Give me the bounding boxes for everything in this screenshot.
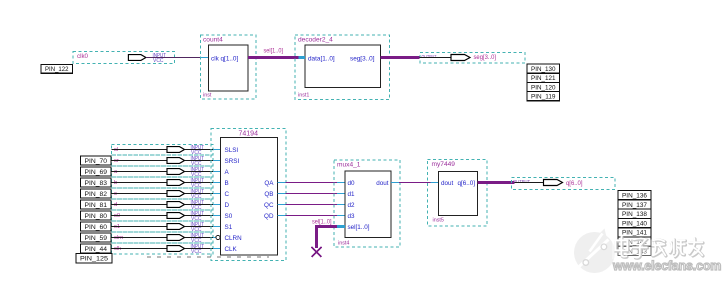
bus seg[3..0] decoder2_4 to output [381, 56, 420, 59]
selection box input s1 [112, 221, 214, 232]
wire s1 pin to buffer [112, 226, 168, 228]
svg-text:PIN_80: PIN_80 [85, 213, 108, 220]
net label sel[1..0] [264, 48, 284, 55]
svg-text:OUTPUT: OUTPUT [422, 54, 437, 60]
net label sr [114, 158, 119, 164]
net label a [114, 169, 118, 175]
OUTPUT label seg [422, 54, 437, 60]
svg-text:mux4_1: mux4_1 [337, 162, 361, 169]
bus sel[1..0] into mux4_1 [315, 225, 345, 248]
svg-text:clrn: clrn [114, 235, 123, 241]
wire dout mux4_1 to my7449 [391, 182, 439, 184]
INPUT VCC label c [191, 189, 205, 200]
input buffer d [167, 202, 185, 208]
svg-text:dout: dout [376, 180, 389, 187]
svg-text:clk0: clk0 [77, 53, 89, 60]
selection box input sr [112, 155, 214, 166]
svg-text:inst5: inst5 [433, 218, 444, 224]
svg-text:data[1..0]: data[1..0] [308, 55, 335, 62]
wire sr pin to buffer [112, 160, 168, 162]
wire b buffer to 74194 [185, 182, 221, 184]
bus q[6..0] my7449 to output [478, 181, 515, 184]
output pin PIN_140 [618, 218, 651, 227]
svg-text:q[6..0]: q[6..0] [457, 180, 475, 187]
output pin PIN_119 [527, 92, 560, 101]
svg-text:d2: d2 [348, 202, 356, 209]
svg-text:PIN_70: PIN_70 [85, 158, 108, 165]
svg-text:seg[3..0]: seg[3..0] [474, 54, 497, 61]
svg-text:decoder2_4: decoder2_4 [298, 37, 333, 44]
watermark elecfans logo [574, 229, 615, 274]
svg-text:QA: QA [264, 180, 274, 187]
svg-text:CLK: CLK [225, 246, 238, 253]
svg-text:PIN_121: PIN_121 [531, 75, 556, 82]
selection box input sl [112, 145, 214, 156]
svg-text:d0: d0 [348, 180, 356, 187]
wire s0 buffer to 74194 [185, 215, 221, 217]
input buffer s0 [167, 213, 185, 219]
wire QA to d0 [278, 182, 346, 184]
wire c pin to buffer [112, 193, 168, 195]
selection box q output [512, 178, 616, 190]
svg-text:d3: d3 [348, 213, 356, 220]
svg-text:VCC: VCC [153, 58, 164, 64]
svg-text:s1: s1 [114, 224, 120, 230]
svg-text:SLSI: SLSI [225, 147, 239, 154]
input buffer clk0 [128, 55, 146, 61]
output pin PIN_120 [527, 82, 560, 91]
output buffer q[6..0] [544, 180, 563, 186]
output pin PIN_143 [618, 246, 651, 255]
svg-text:sl: sl [114, 147, 118, 153]
svg-text:PIN_137: PIN_137 [622, 202, 647, 209]
svg-text:VCC: VCC [191, 249, 202, 255]
svg-text:D: D [225, 202, 230, 209]
wire a buffer to 74194 [185, 171, 221, 173]
wire c buffer to 74194 [185, 193, 221, 195]
input pin PIN_59 [81, 233, 112, 242]
svg-text:inst4: inst4 [338, 241, 349, 247]
input buffer c [167, 191, 185, 197]
input pin PIN_69 [81, 167, 112, 176]
block my7449 U5 [428, 160, 488, 227]
selection box input a [112, 166, 214, 177]
watermark www.elecfans.com [613, 259, 721, 273]
svg-text:PIN_83: PIN_83 [85, 180, 108, 187]
leftover selection dashes [147, 256, 269, 258]
wire s0 pin to buffer [112, 215, 168, 217]
watermark chinese characters [612, 237, 712, 259]
input pin PIN_60 [81, 222, 112, 231]
svg-text:s0: s0 [114, 213, 120, 219]
wire clrn pin to buffer [112, 237, 168, 239]
selection box input clk [112, 243, 214, 254]
wire clk0 to count4 [146, 57, 209, 59]
svg-text:S1: S1 [225, 224, 233, 231]
svg-text:clk: clk [211, 55, 220, 62]
selection box input c [112, 188, 214, 199]
svg-text:b: b [114, 180, 117, 186]
svg-text:PIN_141: PIN_141 [622, 230, 647, 237]
net label sl [114, 147, 118, 153]
net label seg[3..0] [474, 54, 497, 61]
block count4 U1 [201, 35, 257, 99]
svg-text:PIN_140: PIN_140 [622, 220, 647, 227]
dangling X marker sel bus [312, 247, 322, 257]
svg-text:PIN_120: PIN_120 [531, 84, 556, 91]
input pin PIN_81 [81, 200, 112, 209]
svg-text:sel[1..0]: sel[1..0] [264, 48, 284, 55]
output pin PIN_142 [618, 237, 651, 246]
svg-text:QD: QD [264, 213, 274, 220]
svg-text:PIN_136: PIN_136 [622, 193, 647, 200]
net label clk0 [77, 53, 89, 60]
wire a pin to buffer [112, 171, 168, 173]
svg-text:74194: 74194 [239, 131, 259, 138]
svg-text:QB: QB [264, 191, 273, 198]
svg-text:q[1..0]: q[1..0] [221, 55, 239, 62]
wire QB to d1 [278, 193, 346, 195]
svg-text:d: d [114, 202, 117, 208]
svg-text:count4: count4 [203, 37, 223, 44]
selection box input s0 [112, 210, 214, 221]
svg-text:sel[1..0]: sel[1..0] [348, 224, 370, 231]
svg-text:PIN_69: PIN_69 [85, 169, 108, 176]
svg-text:C: C [225, 191, 230, 198]
input buffer clrn [167, 235, 185, 241]
INPUT VCC label s1 [191, 222, 205, 233]
input buffer sl [167, 147, 185, 153]
svg-text:d1: d1 [348, 191, 356, 198]
output pin PIN_141 [618, 228, 651, 237]
svg-text:SRSI: SRSI [225, 158, 240, 165]
svg-text:PIN_82: PIN_82 [85, 191, 108, 198]
wire QC to d2 [278, 204, 346, 206]
svg-text:PIN_125: PIN_125 [80, 256, 108, 263]
input buffer a [167, 169, 185, 175]
svg-text:seg[3..0]: seg[3..0] [350, 55, 375, 62]
input buffer b [167, 180, 185, 186]
wire s1 buffer to 74194 [185, 226, 221, 228]
svg-text:PIN_44: PIN_44 [85, 246, 108, 253]
wire sl buffer to 74194 [185, 149, 221, 151]
wire clk buffer to 74194 [185, 248, 221, 250]
net label b [114, 180, 117, 186]
input pin PIN_44 [81, 244, 112, 253]
output pin PIN_121 [527, 73, 560, 82]
block mux4_1 U4 [334, 160, 400, 247]
output pin PIN_130 [527, 64, 560, 73]
INPUT VCC label b [191, 178, 205, 189]
net label q[6..0] [566, 180, 583, 187]
svg-text:PIN_122: PIN_122 [45, 66, 69, 73]
svg-text:dout: dout [441, 180, 454, 187]
wire d buffer to 74194 [185, 204, 221, 206]
input buffer clk [167, 246, 185, 252]
INPUT VCC label s0 [191, 211, 205, 222]
INPUT VCC label clk0 [153, 53, 167, 64]
svg-text:PIN_138: PIN_138 [622, 211, 647, 218]
wire clrn buffer to 74194 [185, 237, 221, 239]
input pin PIN_80 [81, 211, 112, 220]
INPUT VCC label clrn [191, 233, 205, 244]
selection box input b [112, 177, 214, 188]
INPUT VCC label sr [191, 156, 205, 167]
svg-text:q[6..0]: q[6..0] [566, 180, 583, 187]
wire QD to d3 [278, 215, 346, 217]
svg-text:PIN_60: PIN_60 [85, 224, 108, 231]
input pin PIN_70 [81, 156, 112, 165]
net label d [114, 202, 117, 208]
INPUT VCC label sl [191, 145, 205, 156]
block 74194 U3 [211, 129, 286, 261]
net label s0 [114, 213, 120, 219]
OUTPUT label q [513, 179, 530, 185]
input pin PIN_122 [41, 65, 73, 74]
net label s1 [114, 224, 120, 230]
bus sel[1..0] count4 to decoder2_4 [248, 56, 305, 59]
INPUT VCC label clk [191, 244, 205, 255]
svg-text:c: c [114, 191, 117, 197]
output pin PIN_137 [618, 200, 651, 209]
net label c [114, 191, 117, 197]
wire to q output buffer [515, 182, 544, 184]
wire b pin to buffer [112, 182, 168, 184]
selection box input clrn [112, 232, 214, 243]
svg-text:a: a [114, 169, 118, 175]
input buffer s1 [167, 224, 185, 230]
output buffer seg[3..0] [451, 55, 470, 61]
input buffer sr [167, 158, 185, 164]
output pin PIN_136 [618, 191, 651, 200]
wire to seg output buffer [420, 57, 452, 59]
wire sl pin to buffer [112, 149, 168, 151]
svg-text:S0: S0 [225, 213, 233, 220]
net label sel[1..0] at mux [312, 219, 332, 225]
output pin PIN_138 [618, 209, 651, 218]
svg-text:PIN_130: PIN_130 [531, 66, 556, 73]
selection box clk0 input [73, 52, 175, 64]
svg-text:QC: QC [264, 202, 274, 209]
block decoder2_4 U2 [295, 35, 390, 100]
svg-text:my7449: my7449 [432, 161, 456, 168]
svg-text:sel[1..0]: sel[1..0] [312, 219, 332, 225]
svg-text:inst: inst [203, 93, 212, 99]
net label clrn [114, 235, 123, 241]
wire d pin to buffer [112, 204, 168, 206]
input pin PIN_125 [76, 254, 112, 264]
selection box input d [112, 199, 214, 210]
input pin PIN_82 [81, 189, 112, 198]
svg-text:clk: clk [114, 246, 121, 252]
svg-text:PIN_59: PIN_59 [85, 235, 108, 242]
INPUT VCC label d [191, 200, 205, 211]
svg-text:CLRN: CLRN [225, 235, 243, 242]
INPUT VCC label a [191, 167, 205, 178]
input pin PIN_83 [81, 178, 112, 187]
svg-text:inst1: inst1 [298, 93, 309, 99]
wire clk pin to buffer [112, 248, 168, 250]
selection box seg output [420, 53, 525, 64]
svg-text:PIN_119: PIN_119 [531, 94, 556, 101]
svg-text:sr: sr [114, 158, 119, 164]
wire sr buffer to 74194 [185, 160, 221, 162]
net label clk [114, 246, 121, 252]
svg-text:B: B [225, 180, 229, 187]
svg-text:PIN_81: PIN_81 [85, 202, 108, 209]
